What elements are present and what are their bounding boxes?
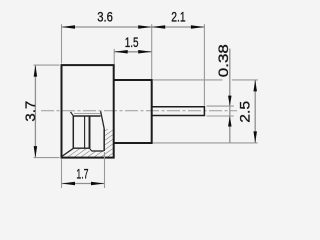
dim 2.5 extension line bottom — [153, 142, 258, 144]
slot foot kink — [90, 148, 92, 151]
slot wall thick — [89, 116, 91, 148]
dim 3.7 extension line top — [34, 64, 60, 66]
dim 1.5 line — [114, 50, 152, 54]
dim 0.38 label — [215, 44, 231, 77]
barrel outline — [114, 80, 152, 143]
dim 3.7 label — [22, 101, 38, 122]
dim 3.6 line — [62, 25, 152, 29]
dim 3.7 extension line bottom — [34, 157, 60, 159]
hatch area recess band — [90, 152, 105, 157]
dim 1.7 extension line left — [61, 159, 63, 188]
bore floor — [73, 147, 89, 149]
dim 2.1 label — [171, 9, 186, 25]
dim 3.6 extension line left — [61, 24, 63, 63]
centerline (axis) — [41, 110, 237, 112]
svg-text:1.5: 1.5 — [125, 34, 139, 50]
svg-text:0.38: 0.38 — [215, 44, 231, 77]
dim 1.7 line — [62, 182, 105, 186]
dim 1.5 extension line left — [113, 49, 115, 64]
dim 1.5 label — [125, 34, 139, 50]
recess floor — [92, 150, 104, 152]
corner chamfer diagonal — [62, 148, 74, 156]
hatch area bottom band — [74, 149, 90, 157]
bore mouth chamfer — [71, 112, 74, 116]
svg-text:3.7: 3.7 — [22, 101, 38, 122]
bore edge light line — [74, 113, 100, 115]
dim 2.5 extension line top — [153, 79, 258, 81]
shared extension line x=151.7 — [151, 24, 153, 79]
hatch area bottom-left wedge — [62, 149, 74, 157]
dim 0.38 line — [228, 49, 232, 143]
hatch area right strip — [105, 129, 113, 157]
dim 1.7 extension line right — [104, 152, 106, 188]
dim 2.5 label — [237, 101, 253, 123]
bore ceiling line — [73, 115, 100, 117]
bore right diagonal — [101, 111, 105, 128]
dim 2.1 extension line right — [203, 24, 205, 106]
slot wall thin — [84, 116, 86, 148]
svg-text:1.7: 1.7 — [76, 165, 88, 181]
dim 2.5 line — [253, 80, 257, 143]
pin outline — [152, 107, 205, 116]
dim 3.7 line — [34, 65, 38, 158]
dim 0.38 extension line bottom — [207, 115, 234, 117]
dim 1.7 label — [76, 165, 88, 181]
svg-text:2.5: 2.5 — [237, 101, 253, 123]
flange outline — [62, 65, 114, 158]
dim 2.1 line — [152, 25, 205, 29]
bore left wall — [72, 116, 74, 148]
bore right wall — [103, 129, 105, 151]
svg-text:3.6: 3.6 — [97, 9, 113, 25]
svg-text:2.1: 2.1 — [171, 9, 186, 25]
dim 3.6 label — [97, 9, 113, 25]
dim 0.38 extension line top — [207, 105, 234, 107]
